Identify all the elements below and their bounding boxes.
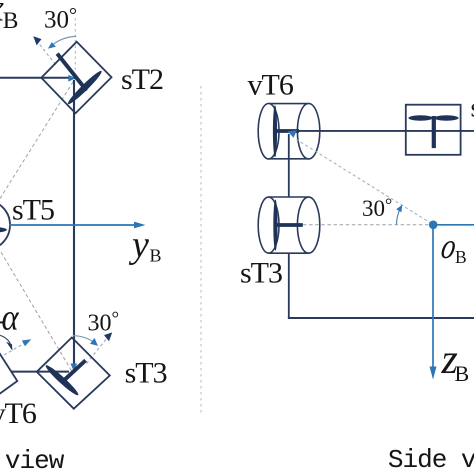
svg-text:B: B	[3, 8, 19, 34]
svg-text:sT2: sT2	[121, 63, 163, 96]
propeller of sT3	[44, 360, 86, 397]
svg-text:B: B	[455, 361, 470, 386]
thruster sT3 cylinder (side view)	[258, 197, 320, 253]
divider dashed line between views	[200, 86, 202, 415]
thruster vT6 partial diamond (rotated square)	[0, 339, 17, 411]
angle arc 30 deg at sT2	[48, 36, 76, 48]
svg-text:sT5: sT5	[12, 194, 54, 227]
svg-text:vT6: vT6	[0, 397, 37, 430]
propeller of sT5	[0, 226, 7, 233]
thruster sT2 diamond	[41, 42, 111, 114]
wire: horizontal frame line vT6 to sT3	[11, 371, 70, 373]
angle arrow for alpha (curved)	[0, 322, 12, 350]
svg-text:Top view: Top view	[0, 446, 65, 474]
wire: vertical frame line sT2 to sT3	[73, 80, 75, 364]
wire: blue horizontal from o_B to right edge	[433, 224, 474, 226]
label o_B	[438, 227, 466, 267]
svg-text:sT3: sT3	[240, 257, 282, 290]
svg-text:y: y	[128, 224, 149, 266]
wire: vertical strut from vT6 hub down to sT3 cylinder	[288, 134, 290, 198]
wire: dashed thrust arrow up-right at sT3	[87, 332, 113, 363]
svg-text:α: α	[2, 297, 20, 338]
wire: gray dashed radial sT5 to sT3 center	[0, 247, 73, 373]
thruster sT3 diamond	[37, 338, 110, 409]
wire: horizontal frame line into sT2 center	[0, 77, 69, 79]
wire: dashed diagonal o_B to vT6 hub	[288, 130, 432, 223]
propeller of sT3 (side)	[273, 200, 303, 251]
node blue arrowhead at sT2 center	[68, 75, 76, 82]
axis y_B (blue arrow)	[9, 222, 146, 229]
svg-text:Side view: Side view	[388, 445, 474, 474]
label z_B	[441, 337, 470, 386]
wire: dashed horizontal from sT3 hub to o_B	[303, 224, 429, 226]
svg-text:vT6: vT6	[248, 69, 294, 102]
svg-text:sT4: sT4	[471, 93, 474, 123]
thruster sT5 circle	[0, 200, 10, 250]
wire: horizontal line vT6 hub to right edge (through sT1 box)	[299, 130, 474, 132]
thruster vT6 cylinder (side view)	[258, 104, 320, 159]
label y_B	[128, 224, 162, 266]
wire: bottom horizontal frame line	[288, 317, 474, 319]
node o_B origin dot	[429, 221, 438, 230]
axis z_B (blue arrow down)	[430, 225, 437, 380]
propeller of sT2	[57, 54, 104, 107]
wire: light dashed vertical reference above sT2	[74, 18, 76, 77]
propeller of sT1	[408, 115, 458, 148]
svg-text:B: B	[455, 247, 467, 267]
svg-text:sT3: sT3	[125, 357, 167, 390]
wire: vertical strut below sT3 cylinder	[288, 253, 290, 318]
angle arc 30 deg (side view)	[396, 205, 402, 225]
thruster sT1 box (side view)	[406, 105, 461, 155]
node x_B axis label (cut at corner)	[0, 0, 18, 34]
wire: dashed thrust arrow up-left at sT2	[33, 36, 55, 64]
node blue arrowhead pointing down at sT3 center	[70, 364, 77, 372]
wire: gray dashed radial sT5 to sT2 center	[0, 78, 76, 199]
svg-text:B: B	[150, 246, 162, 266]
wire: dashed thrust arrow up-right near vT6	[4, 339, 31, 355]
angle arc 30 deg at sT3	[73, 336, 98, 346]
propeller of vT6 (side)	[273, 105, 299, 157]
